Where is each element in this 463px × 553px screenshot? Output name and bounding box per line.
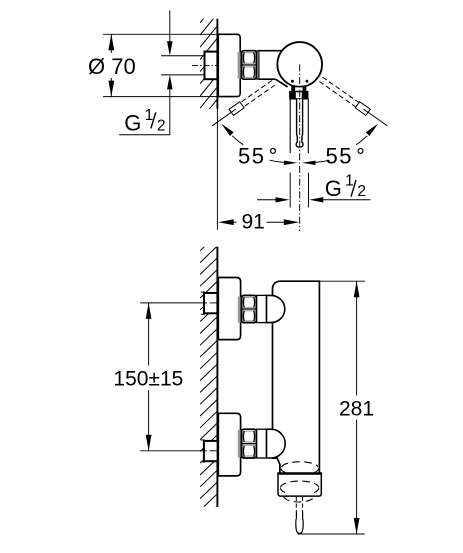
dimension Ø70 line + arrows: [110, 34, 112, 53]
55 degree arrowhead left-lower: [284, 161, 298, 165]
svg-text:°: °: [356, 144, 365, 169]
svg-text:55: 55: [326, 144, 353, 169]
55 degree arc tail right-upper: [356, 136, 367, 145]
dimension 150±15 line + arrows: [148, 303, 150, 366]
55 degree arrowhead left-upper: [221, 124, 233, 136]
lower flange (front view): [218, 413, 240, 476]
hidden sphere in outlet nut (dashed): [280, 481, 319, 487]
55 degree arc tail left-lower: [270, 160, 285, 162]
upper connection dome: [267, 295, 285, 322]
svg-text:2: 2: [157, 117, 166, 134]
55 degree arrowhead right-upper: [366, 124, 378, 136]
lower union hex nut: [242, 429, 257, 458]
outlet nut: [278, 474, 321, 497]
svg-text:G: G: [325, 176, 342, 201]
lever sleeve (top view): [289, 99, 291, 153]
lower supply pipe stubs: [201, 439, 205, 441]
lever hub (top view): [292, 87, 306, 92]
svg-text:55: 55: [238, 144, 265, 169]
lever rod (top view): [296, 99, 303, 147]
shadow behind upper nut: [238, 297, 241, 323]
dimension G1/2 lower arrows: [257, 199, 278, 201]
union cylinder (top view): [257, 51, 259, 79]
dimension Ø70 extension lines: [103, 33, 218, 35]
lower union cylinder: [257, 429, 267, 458]
hose nipple tip: [296, 512, 303, 534]
svg-text:1: 1: [345, 173, 354, 190]
55 degree arrowhead right-lower: [302, 161, 316, 165]
dimension 91 line + arrows: [218, 219, 234, 225]
pipe thread stub in wall (top view): [205, 52, 218, 80]
dimension Ø70 arrow up: [108, 34, 114, 50]
lower connection dome: [267, 429, 286, 458]
wall (front view): [216, 247, 218, 507]
svg-text:G: G: [124, 111, 141, 136]
pipe centerline (top view): [192, 64, 217, 66]
hidden cone below nut (dashed): [284, 496, 315, 502]
dimension G1/2 upper: arrows at pipe: [169, 10, 171, 45]
upper supply pipe stubs: [201, 291, 205, 293]
wall hatching (top view): [200, 2, 217, 132]
55 degree arc tail left-upper: [232, 136, 243, 145]
shadow behind lower nut: [238, 430, 241, 458]
svg-text:281: 281: [339, 397, 374, 420]
mixer body (front view): [273, 281, 320, 473]
lower pipe centerline + 150 extension: [140, 450, 207, 452]
dimension 91: wall extension line: [216, 109, 218, 230]
wall (top view): [216, 19, 218, 109]
svg-text:150±15: 150±15: [113, 367, 183, 390]
hose nipple hidden part (dashed): [295, 497, 297, 512]
mixer body circle (top view): [277, 42, 322, 87]
55 degree arc tail right-lower: [315, 160, 330, 162]
wall escutcheon flange (top view): [218, 34, 240, 96]
dashed lever position right: [319, 77, 359, 107]
dashed lever position left: [240, 81, 275, 108]
upper flange (front view): [218, 278, 240, 340]
wall hatching (front view): [200, 235, 217, 523]
svg-text:1: 1: [145, 107, 154, 124]
hidden outlet sphere (dashed) in body: [282, 462, 318, 467]
label G1/2 upper: [119, 134, 170, 136]
upper pipe centerline + 150 extension: [140, 302, 207, 304]
dimension 281 line + arrows: [356, 281, 358, 395]
union hex nut (top view): [242, 51, 257, 79]
valve block between nut and body (top view): [259, 50, 284, 52]
screw dots on body: [291, 80, 294, 83]
svg-text:Ø 70: Ø 70: [88, 54, 136, 79]
lever centerline: [299, 64, 301, 231]
dimension 281 extension lines: [320, 280, 365, 282]
shadow behind nut (top view): [238, 52, 241, 79]
svg-text:2: 2: [357, 183, 366, 200]
lower pipe thread in wall: [204, 441, 218, 461]
supply pipe (top view): [161, 55, 204, 57]
upper pipe thread in wall: [204, 293, 217, 313]
outlet extension lines (lever width): [289, 173, 291, 208]
upper union hex nut: [242, 295, 257, 322]
dimension Ø70 arrow down: [108, 81, 114, 97]
55 degree extension lines along arms: [212, 109, 236, 126]
svg-text:°: °: [269, 144, 278, 169]
svg-text:91: 91: [242, 211, 265, 234]
upper union cylinder: [257, 295, 267, 322]
